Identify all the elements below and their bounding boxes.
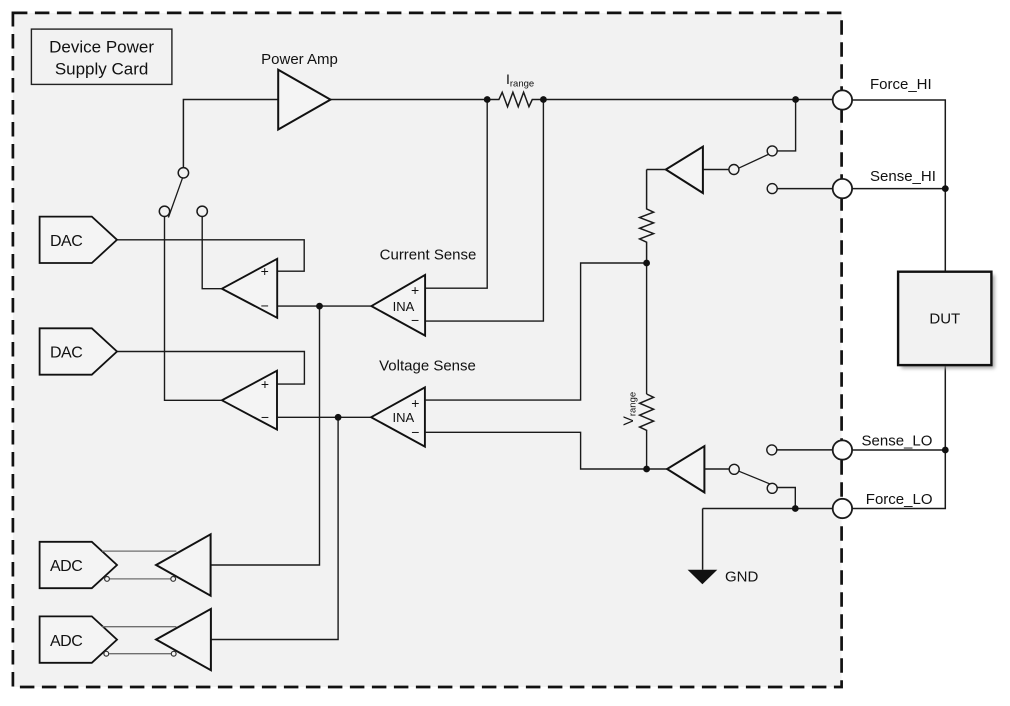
svg-text:Power Amp: Power Amp [261, 51, 338, 68]
svg-text:+: + [261, 376, 269, 392]
terminal Force_HI [833, 90, 852, 109]
ground [688, 570, 718, 585]
wire: LO buffer input [704, 468, 729, 470]
wire: V_range bottom to LO buffer [647, 430, 668, 469]
terminal Sense_LO [833, 440, 852, 459]
switch circle LO pole [729, 464, 739, 474]
wire: error amp 2 output to switch [165, 217, 222, 401]
svg-text:−: − [261, 409, 269, 425]
switch throw circle right [197, 206, 207, 216]
wire: DAC1 to error amp + input [117, 240, 304, 271]
svg-text:DAC: DAC [50, 345, 82, 362]
ADC 1 [40, 542, 117, 588]
DAC 2 [40, 328, 117, 374]
wire: divider mid [646, 263, 648, 394]
buffer mux ADC2 [156, 609, 211, 670]
wire: power amp output to I_range [331, 99, 488, 101]
svg-text:Sense_LO: Sense_LO [862, 433, 933, 450]
op-amp error amp 2 [222, 371, 277, 430]
main DAC switch: pole circle [178, 168, 188, 178]
wire: power amp input from switch pole [183, 100, 278, 168]
wire: INA voltage + input to divider mid [425, 263, 647, 400]
node Force_HI tap [792, 96, 799, 103]
svg-text:GND: GND [725, 569, 759, 586]
svg-text:−: − [411, 312, 419, 328]
svg-text:+: + [411, 282, 419, 298]
LO buffer amp [667, 446, 704, 492]
resistor I_range [487, 92, 543, 106]
wire: INA current + input from I_range left [425, 100, 487, 289]
terminal Sense_HI [833, 179, 852, 198]
switch blade LO [739, 471, 772, 485]
svg-text:Current Sense: Current Sense [380, 247, 477, 264]
buffer HI amp [666, 147, 703, 193]
wire: error amp 1 output to switch [202, 217, 222, 289]
card background: Device Power Supply Card dashed boundary [13, 13, 842, 687]
switch circle LO upper throw [767, 445, 777, 455]
wire: Sense_LO line [777, 449, 833, 451]
wire: Force_LO to DUT bottom [852, 365, 945, 508]
buffer mux ADC1 [156, 534, 211, 595]
svg-text:Force_HI: Force_HI [870, 76, 932, 93]
wire: INA voltage output to error amp 2 - input [277, 416, 371, 418]
wire: I_range to Force_HI [543, 99, 833, 101]
title box [31, 29, 172, 84]
node Sense_HI join [942, 185, 949, 192]
svg-text:Force_LO: Force_LO [866, 491, 933, 508]
mux link line top ADC2 [102, 626, 176, 628]
resistor upper divider [640, 170, 654, 264]
wire: Force_LO line to GND drop [703, 508, 833, 510]
wire: Sense_HI line [777, 188, 833, 190]
DUT block [901, 275, 994, 368]
terminal Force_LO [833, 499, 852, 518]
ADC 2 [40, 616, 117, 662]
node divider mid [643, 260, 650, 267]
svg-text:DUT: DUT [929, 311, 960, 328]
mux link line bottom ADC2 [109, 653, 171, 655]
node Force_LO tap [792, 505, 799, 512]
svg-text:INA: INA [392, 410, 414, 425]
wire: Sense_HI to DUT vertical [852, 188, 945, 190]
node I_range right [540, 96, 547, 103]
switch circle LO lower throw [767, 483, 777, 493]
svg-text:−: − [411, 424, 419, 440]
wire: voltage sense node down to ADC mux 2 [211, 417, 338, 639]
switch throw circle left [159, 206, 169, 216]
wire: DAC2 to error amp 2 + input [117, 352, 304, 385]
wire: current sense node down to ADC mux 1 [211, 306, 320, 565]
node voltage sense out [335, 414, 342, 421]
svg-text:Voltage Sense: Voltage Sense [379, 358, 476, 375]
switch blade DAC select [168, 178, 182, 217]
wire: INA current - input from I_range right [425, 100, 543, 322]
switch blade HI [739, 153, 771, 168]
mux link line bottom ADC1 [109, 578, 171, 580]
svg-text:Device Power: Device Power [49, 38, 154, 57]
wire: INA voltage - input to divider bottom [425, 432, 647, 469]
switch circle HI upper throw [767, 146, 777, 156]
wire: INA current output to error amp [277, 305, 371, 307]
op-amp error amp 1 [222, 259, 277, 318]
node Sense_LO join [942, 447, 949, 454]
svg-text:−: − [261, 298, 269, 314]
svg-text:Supply Card: Supply Card [55, 60, 149, 79]
op-amp INA current sense U-INA1 [371, 275, 425, 336]
mux link line top ADC1 [102, 550, 176, 552]
svg-text:+: + [411, 395, 419, 411]
svg-text:ADC: ADC [50, 633, 82, 650]
node I_range left [484, 96, 491, 103]
node divider bottom [643, 466, 650, 473]
switch circle HI lower throw [767, 184, 777, 194]
resistor V_range [640, 394, 654, 431]
DAC 1 [40, 217, 117, 263]
svg-text:+: + [261, 263, 269, 279]
op-amp INA voltage sense [371, 387, 425, 446]
svg-text:Sense_HI: Sense_HI [870, 168, 936, 185]
wire: sense tap down to HI switch [777, 100, 795, 151]
svg-text:DAC: DAC [50, 233, 82, 250]
wire: GND drop [702, 509, 704, 570]
wire: LO switch lower throw to Force_LO line [777, 488, 795, 509]
svg-text:ADC: ADC [50, 558, 82, 575]
switch circle HI pole [729, 165, 739, 175]
wire: Force_HI to DUT top [852, 100, 945, 272]
wire: buffer out to divider [647, 169, 666, 171]
wire: HI buffer input [703, 169, 729, 171]
op-amp power amp [278, 70, 330, 130]
node current sense out [316, 303, 323, 310]
